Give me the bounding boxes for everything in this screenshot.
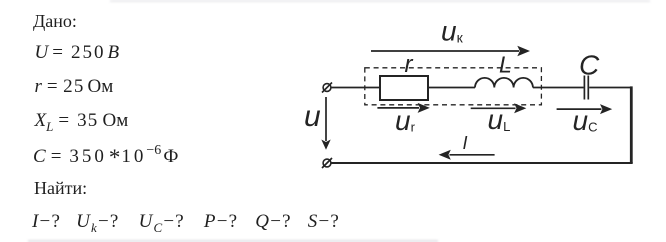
given: U = 250 V [35,43,120,62]
wire: resistor to inductor [428,87,475,89]
capacitor C plates [584,76,588,100]
terminal top input [322,83,332,93]
resistor r [380,76,428,100]
svg-text:ur: ur [395,105,416,136]
svg-text:L: L [499,52,512,78]
wire: capacitor to right edge [589,87,632,89]
svg-text:C: C [579,49,600,80]
find: quantities [32,212,340,234]
arrow: uC under capacitor [557,104,613,114]
dashed box around r and L [365,68,542,105]
faint cropped text artifact top edge [110,0,650,2]
arrow: uL under inductor [471,103,527,113]
arrow: ur under resistor [377,103,429,113]
svg-text:u: u [304,100,321,133]
given: XL = 35 Ohm [35,111,129,133]
given: r = 25 Ohm [35,77,114,96]
wire: inductor to capacitor [533,87,584,89]
svg-text:uк: uк [441,16,464,47]
arrow: source voltage u [321,97,330,150]
given: heading [33,12,77,30]
svg-text:r: r [405,51,414,78]
wire: right edge vertical [630,86,633,163]
wire: top terminal to resistor [331,87,380,89]
inductor L [475,78,533,88]
arrow: current I [439,150,495,160]
find: heading [34,179,87,197]
wire: bottom return [331,162,633,164]
svg-text:I: I [463,133,468,153]
faint cropped text artifact bottom edge [28,240,438,242]
given: C = 350e-6 F [33,143,178,166]
terminal bottom input [322,158,332,168]
arrow: uK over coil [371,46,530,57]
